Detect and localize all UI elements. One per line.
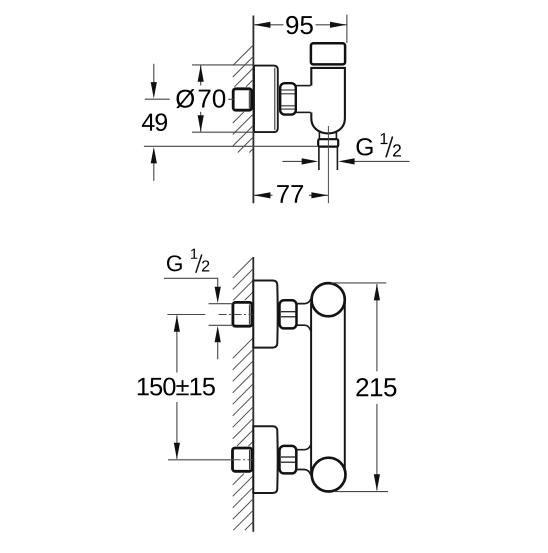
top union hex nut (bottom view) xyxy=(280,300,297,328)
top square nut behind wall (bottom view) xyxy=(233,302,252,326)
top round end of bar xyxy=(312,283,345,316)
mixer bar body (bottom view) xyxy=(311,302,345,474)
bottom round end of bar xyxy=(312,458,346,492)
wall flange / escutcheon (top view, side profile) xyxy=(254,66,278,133)
dimension Ø70 (top) xyxy=(176,65,254,132)
bottom union hex nut (bottom view) xyxy=(280,446,297,474)
union neck between hex nut and valve body (top view) xyxy=(296,86,311,113)
valve push-button cap (top view) xyxy=(311,43,345,64)
bottom wall union flange (bottom view) xyxy=(253,426,277,493)
G 1/2 thread reference lines + arrows (bottom view) xyxy=(164,278,233,359)
outlet centre line (top view) xyxy=(327,126,329,203)
wall hatching (top view) xyxy=(233,45,254,153)
top union neck with fillets (bottom view) xyxy=(297,299,311,331)
hex nut on union (top view) xyxy=(280,83,296,114)
bottom square nut behind wall (bottom view) xyxy=(233,448,252,471)
outlet pipe G1/2 (top view) xyxy=(319,147,338,170)
valve body cylinder (top view) xyxy=(311,68,345,133)
G 1/2 leader arrows at outlet pipe (top) xyxy=(282,158,409,164)
dimension 77 (top) xyxy=(253,185,328,203)
dimension 49 (top) xyxy=(142,64,318,181)
bottom union centre line (bottom view) xyxy=(168,459,253,461)
dimension 95 (top) xyxy=(253,15,347,43)
leader dash from Ø70 label to inlet nut xyxy=(228,98,233,100)
dimension 215 (bottom) xyxy=(331,283,396,492)
G 1/2 label (top) xyxy=(357,133,401,157)
spout collar (top view) xyxy=(318,139,338,146)
G 1/2 label (bottom) xyxy=(167,249,209,273)
wall face line (bottom view) xyxy=(252,257,254,532)
dimension 150±15 (bottom) xyxy=(138,315,215,459)
bottom union neck with fillets (bottom view) xyxy=(296,445,311,476)
square inlet nut behind wall (top view) xyxy=(233,89,251,110)
wall hatching (bottom view) xyxy=(233,258,254,530)
top wall union flange (bottom view) xyxy=(253,281,277,348)
top union centre line (bottom view) xyxy=(167,314,252,316)
spout neck (top view) xyxy=(319,131,336,140)
wall face line (top view) xyxy=(252,16,254,204)
